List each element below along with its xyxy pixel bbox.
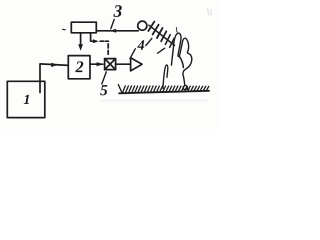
label 3 — [113, 5, 121, 17]
wire: top box left leg down to block 2 — [80, 33, 82, 45]
flame (plasma) — [171, 33, 191, 89]
ground (hatched surface) — [118, 85, 209, 94]
block 1 (generator) — [7, 81, 45, 117]
stray hatch stroke — [146, 38, 152, 45]
label 1 — [24, 95, 29, 104]
flame top wisp — [175, 28, 178, 33]
arrowhead on beam line 3 (pointing left) — [110, 29, 116, 33]
grating (hatched diagonal) — [149, 25, 175, 45]
wire from block 1 up and right to block 2 — [40, 64, 68, 93]
block 3 (top box, laser) — [71, 22, 96, 33]
amplifier (triangle) — [131, 58, 142, 71]
dashed wire to modulator — [91, 40, 93, 42]
small spark wisp on ground — [163, 65, 168, 89]
stray beam dash — [158, 48, 165, 53]
tick of label 4 — [130, 49, 135, 59]
label 2 — [75, 61, 83, 72]
arrowhead into block 2 horizontal wire — [51, 63, 58, 67]
faint bleed-through smudge — [100, 100, 208, 102]
beam line 3 from laser to lens — [96, 30, 138, 32]
lens / detector (circle) — [138, 21, 147, 30]
flame inner stroke — [179, 56, 183, 67]
block 2 — [68, 56, 90, 79]
arrowhead down toward block 2 — [78, 44, 83, 51]
faint corner mark — [208, 8, 212, 16]
small speck left of top box — [63, 28, 66, 31]
wire block 2 to modulator — [90, 63, 103, 65]
arrowhead on dashed wire — [93, 39, 99, 43]
modulator X1 (box with cross) — [105, 59, 116, 70]
label 5 — [100, 85, 107, 95]
arrowhead into modulator — [97, 62, 104, 66]
wire: top box right leg — [90, 33, 92, 41]
wire modulator to amplifier — [116, 63, 131, 65]
tick of label 3 — [111, 19, 114, 28]
label 4 — [137, 40, 144, 49]
tick of label 5 — [102, 72, 107, 84]
